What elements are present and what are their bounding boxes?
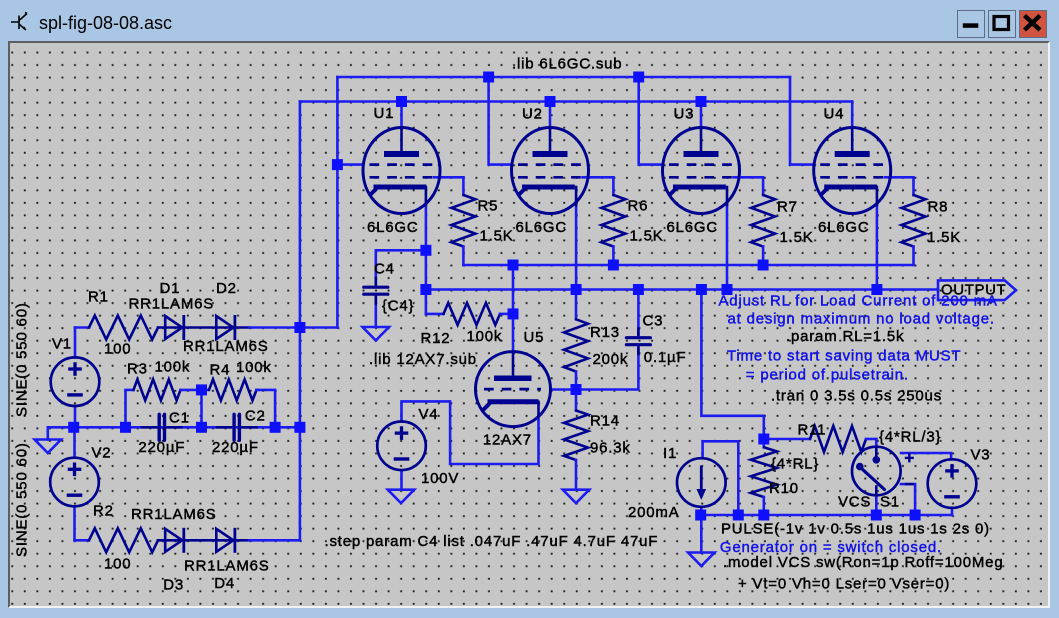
voltage source V4 [377, 422, 426, 471]
svg-text:RR1LAM6S: RR1LAM6S [131, 506, 217, 523]
wire R3/R4 junction riser [200, 390, 203, 427]
junction bus2/U1 plate [396, 96, 407, 107]
wire S1 ctrl+ to V3 [901, 453, 951, 460]
diode D3 [165, 528, 184, 553]
pentode U4 [814, 128, 891, 214]
window title [39, 13, 172, 34]
junction railA/R7 [758, 260, 769, 271]
svg-text:D4: D4 [214, 575, 235, 592]
junction diode row/bus2 drop [294, 322, 305, 333]
svg-text:96.3k: 96.3k [590, 439, 631, 456]
svg-text:R11: R11 [798, 421, 827, 438]
resistor R5 [462, 177, 465, 195]
svg-text:220µF: 220µF [212, 439, 259, 456]
wire C4 to ground [374, 295, 377, 328]
junction mid rail/bus2 drop [294, 422, 305, 433]
resistor R7 [762, 177, 765, 195]
wire mid rail [48, 426, 300, 429]
wire U3 grid stub [734, 176, 764, 179]
svg-text:R2: R2 [93, 503, 114, 520]
svg-text:1.5K: 1.5K [480, 227, 514, 244]
junction railA/R6 [608, 260, 619, 271]
svg-text:220µF: 220µF [138, 439, 185, 456]
svg-text:100k: 100k [236, 359, 272, 376]
svg-text:C4: C4 [374, 260, 395, 277]
wire bottom bus [701, 514, 952, 517]
resistor R10 [762, 439, 765, 447]
wire V3 bottom lead [951, 508, 954, 515]
ground (C4) [363, 327, 389, 341]
svg-text:U4: U4 [824, 106, 845, 123]
wire V1 bottom lead [74, 406, 77, 427]
wire U5 cathode route to V4 [402, 401, 539, 464]
wire V1 top lead [74, 328, 77, 358]
wire U5 grid stub [550, 388, 576, 391]
pentode U2 [512, 128, 589, 214]
junction bus2/U2 plate [545, 96, 556, 107]
junction bottom bus/S1 [871, 510, 882, 521]
wire U1 screen stub [337, 163, 363, 166]
resistor R14 [575, 390, 578, 411]
svg-text:.tran 0 3.5s 0.5s 250us: .tran 0 3.5s 0.5s 250us [771, 387, 942, 404]
svg-text:D1: D1 [160, 280, 181, 297]
svg-text:C3: C3 [643, 312, 664, 329]
junction railB/U3 cathode [722, 284, 733, 295]
capacitor C3 [626, 327, 650, 355]
wire S1 bottom pin [875, 495, 878, 515]
svg-text:100k: 100k [467, 328, 503, 345]
svg-text:V2: V2 [92, 444, 112, 461]
resistor R6 [612, 177, 615, 195]
pentode U3 [663, 128, 740, 214]
svg-text:R7: R7 [777, 198, 798, 215]
wire bus1 right drop to U4 screen [790, 77, 814, 165]
capacitor C2 [216, 414, 258, 440]
svg-text:+ Vt=0 Vh=0 Lser=0 Vser=0): + Vt=0 Vh=0 Lser=0 Vser=0) [738, 576, 950, 593]
junction U1 cathode/C4 [420, 245, 431, 256]
resistor R12 [426, 313, 444, 316]
wire U2 plate lead [549, 102, 552, 129]
wire C4 branch [376, 250, 426, 287]
svg-text:1.5K: 1.5K [630, 227, 664, 244]
junction railB/feed [696, 284, 707, 295]
wire R4 right riser [257, 390, 276, 427]
wire U2 screen feed [489, 77, 512, 165]
svg-text:U2: U2 [522, 106, 543, 123]
junction railB/U2 cathode/R13 [571, 284, 582, 295]
minimize button [957, 10, 985, 38]
wire U4 cathode drop [876, 204, 879, 290]
svg-text:R4: R4 [210, 361, 231, 378]
ground (V1/V2 node) [35, 440, 61, 454]
svg-text:1.5K: 1.5K [780, 229, 814, 246]
resistor R3 [132, 389, 135, 392]
wire C3 top lead [637, 290, 640, 338]
svg-text:.lib 12AX7.sub: .lib 12AX7.sub [369, 351, 477, 368]
current source I1 [677, 458, 726, 507]
svg-text:200k: 200k [593, 351, 629, 368]
voltage source V3 [928, 459, 977, 508]
svg-text:V1: V1 [52, 335, 72, 352]
wire bus1 left drop to U1 screen / D-row [336, 77, 339, 328]
junction R10/R11 top [758, 434, 769, 445]
svg-text:200mA: 200mA [628, 504, 680, 521]
svg-text:{4*RL/3}: {4*RL/3} [879, 428, 941, 445]
wire diode row D3-D4 leads [158, 539, 249, 542]
junction railB/U1 cathode [420, 284, 431, 295]
svg-text:12AX7: 12AX7 [483, 431, 532, 448]
maximize button [988, 10, 1016, 38]
resistor R4 [202, 389, 210, 392]
junction C1/C2 mid [196, 422, 207, 433]
junction railA/U5 feed [508, 260, 519, 271]
junction C1 left [120, 422, 131, 433]
resistor R11 [764, 438, 810, 441]
svg-text:SINE(0 550 60): SINE(0 550 60) [13, 302, 30, 417]
svg-text:R1: R1 [88, 288, 109, 305]
junction U1 screen [332, 159, 343, 170]
ground (I1) [688, 553, 714, 567]
svg-text:R10: R10 [769, 480, 799, 497]
wire U3 screen feed [639, 77, 663, 165]
svg-text:V4: V4 [419, 406, 439, 423]
svg-text:= period of pulsetrain.: = period of pulsetrain. [746, 366, 909, 383]
svg-text:C1: C1 [169, 409, 190, 426]
junction bottom bus/I1 loop [733, 510, 744, 521]
ground (V4) [388, 490, 414, 504]
junction U5 grid/R13/R14/C3 [571, 384, 582, 395]
wire V4 to ground [400, 470, 403, 489]
svg-text:R13: R13 [590, 324, 620, 341]
svg-text:U5: U5 [524, 329, 545, 346]
svg-text:Adjust RL for Load Current of: Adjust RL for Load Current of 200 mA [719, 292, 998, 309]
svg-text:D2: D2 [216, 280, 237, 297]
svg-text:6L6GC: 6L6GC [818, 219, 870, 236]
svg-text:RR1LAM6S: RR1LAM6S [183, 338, 269, 355]
wire V2 bottom lead [73, 507, 76, 541]
wire cathode rail A [463, 264, 913, 267]
svg-text:RR1LAM6S: RR1LAM6S [184, 558, 270, 575]
wire feed railB to R10/R11 [701, 290, 763, 440]
junction railB/C3 [633, 284, 644, 295]
triode U5 [476, 352, 551, 427]
svg-text:U3: U3 [674, 106, 695, 123]
wire D4 to bus2 drop [249, 539, 300, 542]
wire U4 plate lead [851, 102, 854, 129]
wire I1 bottom to ground [700, 507, 703, 553]
junction bottom bus/R10 [758, 510, 769, 521]
svg-text:.lib 6L6GC.sub: .lib 6L6GC.sub [512, 56, 622, 73]
svg-text:.model VCS sw(Ron=1p Roff=100M: .model VCS sw(Ron=1p Roff=100Meg [723, 554, 1003, 571]
switch S1 (voltage controlled) [852, 447, 914, 496]
wire S1 top pin [875, 439, 878, 447]
pentode U1 [363, 128, 440, 214]
svg-text:Generator on = switch closed.: Generator on = switch closed. [720, 539, 942, 556]
svg-text:R6: R6 [628, 197, 649, 214]
svg-text:.param RL=1.5k: .param RL=1.5k [786, 328, 904, 345]
svg-text:S1: S1 [880, 493, 900, 510]
wire C3 bottom lead [576, 345, 638, 390]
svg-text:.step param C4 list .047uF .47: .step param C4 list .047uF .47uF 4.7uF 4… [325, 533, 659, 550]
resistor R1 [75, 326, 89, 329]
voltage source V1 [51, 357, 100, 406]
junction bus1/U2 screen [483, 72, 494, 83]
wire U3 plate lead [700, 102, 703, 129]
svg-text:D3: D3 [163, 577, 184, 594]
junction bus1/U3 screen [633, 72, 644, 83]
junction bottom bus/S1 ctrl- [910, 510, 921, 521]
wire U2 grid stub [583, 176, 614, 179]
wire D2 to bus2 drop and bus1 leg [249, 326, 337, 329]
svg-text:RR1LAM6S: RR1LAM6S [129, 295, 215, 312]
junction R12/U5 plate [508, 308, 519, 319]
wire bus2 left drop (to diode rows) [299, 102, 302, 541]
svg-text:V3: V3 [971, 446, 991, 463]
svg-text:{C4}: {C4} [382, 297, 414, 314]
svg-text:100V: 100V [421, 470, 459, 487]
wire I1 top loop [703, 441, 739, 515]
svg-text:R3: R3 [127, 360, 148, 377]
wire S1 ctrl- to bus [901, 484, 915, 515]
close button [1019, 10, 1047, 38]
wire output rail B [426, 288, 938, 291]
node OUTPUT flag [938, 280, 1016, 300]
diode D1 [165, 315, 184, 340]
wire bus1 (plate/screen supply top) [337, 76, 790, 79]
svg-text:SINE(0 550 60): SINE(0 550 60) [14, 442, 31, 557]
svg-text:R14: R14 [590, 412, 620, 429]
resistor R13 [575, 290, 578, 320]
svg-text:0.1µF: 0.1µF [644, 349, 687, 366]
svg-text:R12: R12 [421, 330, 451, 347]
svg-text:100k: 100k [155, 358, 191, 375]
svg-text:R8: R8 [928, 198, 949, 215]
wire R3 left riser [126, 390, 134, 427]
svg-text:I1: I1 [663, 445, 677, 462]
svg-text:U1: U1 [374, 105, 395, 122]
wire U4 grid stub [885, 176, 914, 179]
svg-text:at design maximum no load volt: at design maximum no load voltage. [728, 310, 995, 327]
svg-text:6L6GC: 6L6GC [516, 219, 568, 236]
wire U3 cathode drop [726, 204, 729, 290]
svg-text:6L6GC: 6L6GC [367, 219, 419, 236]
wire V2 top lead [73, 427, 76, 457]
wire U5 plate feed [512, 265, 515, 352]
junction bottom bus/I1 [695, 510, 706, 521]
resistor R8 [912, 177, 915, 195]
svg-text:R5: R5 [478, 197, 499, 214]
svg-text:C2: C2 [245, 407, 266, 424]
wire U1 grid stub [434, 176, 463, 179]
junction R3/R4 [196, 384, 207, 395]
junction C2 right [270, 422, 281, 433]
wire U1 plate lead [400, 102, 403, 129]
svg-text:6L6GC: 6L6GC [667, 219, 719, 236]
capacitor C4 [364, 277, 388, 305]
svg-text:Time to start saving data MUST: Time to start saving data MUST [727, 347, 961, 364]
title bar icon [8, 8, 38, 38]
wire U2 cathode drop [575, 204, 578, 290]
svg-text:1.5K: 1.5K [927, 229, 961, 246]
svg-text:VCS: VCS [838, 493, 871, 510]
wire ground stub left [46, 427, 49, 439]
junction V1-V2 node [68, 422, 79, 433]
ground (R14) [563, 490, 589, 504]
junction bus2/U3 plate [696, 96, 707, 107]
svg-text:100: 100 [104, 556, 131, 573]
voltage source V2 [50, 458, 99, 507]
diode D4 [216, 528, 235, 553]
wire U1 cathode drop [425, 204, 428, 314]
resistor R2 [75, 539, 90, 542]
junction railB/U4 cathode [871, 284, 882, 295]
capacitor C1 [141, 414, 183, 440]
wire bus2 (plate supply) [300, 100, 852, 103]
wire diode row D1-D2 leads [158, 326, 249, 329]
diode D2 [216, 315, 235, 340]
svg-text:PULSE(-1v 1v 0.5s 1us 1us 1s 2: PULSE(-1v 1v 0.5s 1us 1us 1s 2s 0) [721, 521, 990, 538]
svg-text:100: 100 [104, 340, 131, 357]
svg-text:{4*RL}: {4*RL} [771, 455, 819, 472]
